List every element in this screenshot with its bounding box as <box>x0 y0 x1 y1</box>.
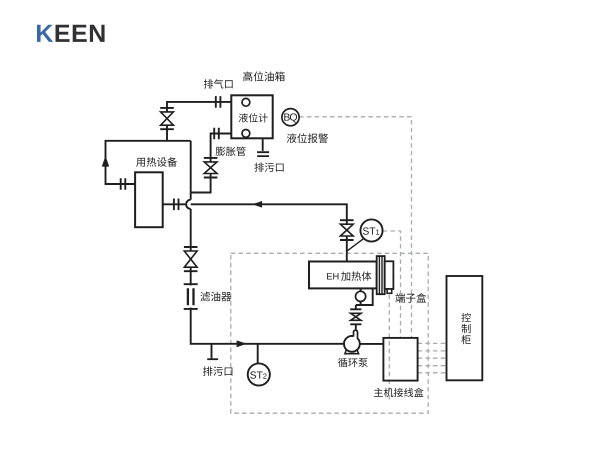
temperature sensor ST1 circle <box>360 219 382 241</box>
label 液位报警 <box>287 133 328 143</box>
temperature sensor ST2 circle <box>248 363 270 385</box>
label 控制柜 (vertical) <box>461 313 471 344</box>
signal wire BQ to junction box <box>299 117 411 338</box>
flow arrow right <box>237 340 247 347</box>
label ST1 <box>363 227 375 234</box>
flange on vent pipe <box>216 96 221 108</box>
signal wires junction box to control cabinet <box>418 343 447 372</box>
terminal box nub <box>387 289 392 293</box>
signal wire ST1 to junction box <box>383 231 401 338</box>
level alarm BQ circle <box>282 109 299 126</box>
tank sight glass top <box>242 98 250 106</box>
tank sight glass bottom <box>242 130 250 138</box>
tank: high-level oil tank <box>231 95 272 138</box>
flange right of equipment <box>174 199 179 211</box>
wire: ST2 stub <box>257 344 259 364</box>
label ST2 <box>250 371 262 378</box>
label 排污口 bottom <box>203 366 232 376</box>
label 膨胀管 <box>216 147 246 157</box>
wire: pump outlet to junction box <box>360 343 384 345</box>
flow arrow up <box>102 156 109 167</box>
wire: expansion pipe from tank to main line <box>191 134 232 193</box>
pump inlet neck <box>354 330 358 339</box>
label 用热设备 <box>136 157 177 167</box>
valve on expansion pipe <box>204 158 218 178</box>
wire: ST1 probe leader <box>347 238 364 251</box>
wire: drain valve stubs <box>355 305 357 330</box>
pressure gauge under heater <box>356 291 366 301</box>
label BQ <box>284 113 297 122</box>
bottom drain outlet bar <box>207 358 218 360</box>
circulation pump base <box>345 350 359 354</box>
label 主机接线盒 <box>374 388 424 397</box>
signal wire terminal box to junction box <box>388 295 390 403</box>
terminal box on heater <box>385 261 394 289</box>
label 高位油箱 <box>243 71 285 81</box>
logo KEEN <box>37 25 105 42</box>
label 滤油器 <box>200 292 231 302</box>
label EH (latin part) <box>327 273 338 279</box>
valve above heater <box>340 220 354 240</box>
label 端子盒 <box>395 293 426 303</box>
oil filter <box>184 284 198 309</box>
label 排污口 tank <box>254 163 283 172</box>
control cabinet <box>447 276 483 380</box>
wire: return pipe from riser to heat equipment <box>163 204 347 261</box>
label 加热体 <box>341 271 371 281</box>
valve on main line <box>184 247 198 271</box>
heater end flange block <box>377 256 385 294</box>
EH heater body <box>309 262 377 289</box>
flange on expansion pipe <box>214 128 219 140</box>
wire: vent pipe from tank to vent valve <box>167 102 231 141</box>
wire: main vertical line with hop <box>191 141 344 344</box>
wire: tank drain stub <box>262 138 264 151</box>
pipe crossing bridge <box>186 200 191 209</box>
circulation pump body <box>344 336 360 352</box>
main junction box <box>383 338 417 381</box>
flange left of equipment <box>121 178 126 190</box>
wire: supply header to heat equipment <box>106 141 191 184</box>
wire: bottom drain stub <box>211 344 213 359</box>
label 循环泵 <box>338 358 368 367</box>
label 排气口 <box>204 79 233 88</box>
wire: heater bottom gauge loop <box>356 288 373 305</box>
flow arrow left <box>252 201 262 208</box>
heat-using equipment box <box>135 172 163 227</box>
label 液位计 <box>239 113 268 122</box>
tank drain outlet bars <box>257 152 269 156</box>
dashed enclosure box <box>231 253 428 413</box>
drain valve at pump <box>350 309 361 324</box>
valve on vent pipe <box>160 108 174 129</box>
